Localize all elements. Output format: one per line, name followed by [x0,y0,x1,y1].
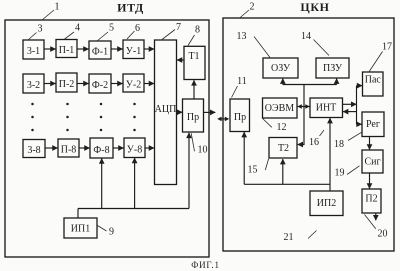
wire power to Пр left [188,133,190,209]
svg-text:ИТД: ИТД [117,1,144,15]
block У-1 [123,40,144,59]
leader 3 [28,33,37,41]
leader 4 [64,32,74,40]
wire П-2 to Ф-2 [77,83,89,85]
wire У-8 to АЦП [145,147,154,149]
wire ИНТ to right bus [343,103,357,105]
svg-text:АЦП: АЦП [155,104,177,115]
wire У-2 to АЦП [144,83,154,85]
wire power to Пр right [243,132,245,184]
svg-text:15: 15 [248,165,258,176]
svg-text:19: 19 [335,168,345,179]
block П-1 [56,40,77,58]
wire bus to Пас [357,85,363,87]
svg-text:4: 4 [75,23,80,34]
svg-text:3-8: 3-8 [27,145,40,156]
wire Сиг to П2 [369,173,371,189]
wire П2 output [375,213,377,220]
block Ф-8 [90,138,113,158]
svg-text:13: 13 [237,31,247,42]
svg-text:16: 16 [309,137,319,148]
svg-text:3: 3 [38,24,43,35]
wire Рег to Сиг [369,137,371,150]
svg-text:ИП1: ИП1 [71,224,90,235]
svg-text:Ф-2: Ф-2 [92,80,108,91]
wire 3-2 to П-2 [44,83,56,85]
wire Ф-2 to У-2 [111,83,123,85]
dots column 3 [31,103,34,132]
svg-text:ФИГ.1: ФИГ.1 [191,260,220,270]
wire ИП1 up to power rail [77,209,79,219]
block Ф-1 [89,41,111,59]
leader 19 [347,166,360,175]
wire bus to ОЗУ [282,79,284,85]
block ИП1 9 [64,218,97,238]
block 3-8 [23,140,45,158]
svg-text:Т2: Т2 [278,143,289,154]
block Пр 11 (right) [230,99,250,132]
svg-text:2: 2 [250,2,255,13]
wire П-1 to Ф-1 [77,48,89,50]
leader 18 [348,132,362,141]
block У-8 [124,138,145,158]
leader 14 [314,40,330,56]
leader 6 [127,31,135,39]
wire Т1 to АЦП [177,59,184,61]
block ЦКН outer box 2 [223,18,394,251]
block Т2 15 [269,138,297,159]
svg-text:Пас: Пас [365,75,382,86]
block Ф-2 [89,74,111,93]
wire П-8 to Ф-8 [79,147,90,149]
svg-text:Т1: Т1 [188,51,199,62]
wire Пр to Т1 [193,80,195,99]
svg-text:14: 14 [301,31,311,42]
leader 12 [263,119,272,128]
svg-text:Рег: Рег [366,119,380,130]
wire bus to Рег [357,123,362,125]
svg-text:Ф-1: Ф-1 [92,47,108,58]
block Пр 10 (left) [183,99,204,132]
wire АЦП to Пр [177,111,183,113]
svg-text:П-8: П-8 [61,145,77,156]
svg-text:Пр: Пр [187,112,199,123]
svg-text:У-8: У-8 [127,145,142,156]
svg-text:18: 18 [334,139,344,150]
leader 5 [97,32,108,41]
svg-text:20: 20 [378,229,388,240]
svg-text:Пр: Пр [234,112,246,123]
leader 20 [365,215,376,229]
svg-text:10: 10 [198,145,208,156]
svg-text:12: 12 [277,122,287,133]
svg-text:17: 17 [382,42,392,53]
wire power rail ИП2 [244,183,330,185]
wire right bus vertical [356,86,358,125]
block Рег 18 [362,112,384,137]
block Пас 17 [363,72,384,96]
leader 17 [369,52,382,72]
leader 9 [98,226,107,232]
block ОЭВМ 12 [263,98,298,118]
wire Пр left to interface [204,111,216,113]
svg-text:9: 9 [109,227,114,238]
wire power to Т2 [282,159,284,184]
svg-text:21: 21 [284,232,294,243]
wire У-1 to АЦП [144,48,154,50]
svg-text:ЦКН: ЦКН [300,0,329,14]
block Т1 8 [184,46,205,79]
wire right bus to ИНТ [343,111,356,113]
leader 2 [239,10,249,19]
block П-2 [56,73,77,92]
dots column У [133,103,136,132]
svg-text:6: 6 [135,23,140,34]
wire Ф-8 to У-8 [113,147,124,149]
leader 11 [232,86,238,98]
wire 3-1 to П-1 [44,48,56,50]
svg-text:У-1: У-1 [126,46,141,57]
block АЦП 7 [155,40,177,185]
dots column Ф [100,103,103,132]
block ИП2 21 [310,191,343,216]
block ИНТ 16 [310,98,343,118]
wire Ф-1 to У-1 [111,48,123,50]
svg-text:8: 8 [195,25,200,36]
wire ИП2 to ИНТ [329,118,331,191]
svg-text:ИП2: ИП2 [317,198,336,209]
leader 10 [191,133,194,151]
svg-text:П-2: П-2 [59,79,75,90]
svg-text:3-1: 3-1 [27,46,40,57]
svg-text:Сиг: Сиг [364,157,380,168]
leader 1 [42,10,54,20]
block У-2 [123,74,144,92]
leader 16 [320,130,325,136]
wire bus drop to Т2 [298,85,304,145]
svg-text:У-2: У-2 [126,80,141,91]
svg-text:П-1: П-1 [59,45,75,56]
wire power to Ф-8 [101,159,103,209]
leader 21 [308,231,317,239]
svg-text:ОЗУ: ОЗУ [271,63,291,74]
svg-text:7: 7 [176,22,181,33]
wire power rail ИП1 [78,208,189,210]
block ПЗУ 14 [316,58,349,78]
block Сиг 19 [362,150,383,173]
svg-text:ОЭВМ: ОЭВМ [265,103,294,114]
block ИТД outer box 1 [5,20,209,257]
leader 13 [254,37,270,58]
svg-text:11: 11 [237,76,247,87]
svg-text:ИНТ: ИНТ [316,103,337,114]
svg-text:П2: П2 [365,194,377,205]
wire bus to ПЗУ [336,79,338,85]
svg-text:ПЗУ: ПЗУ [323,63,343,74]
block 3-1 [23,40,44,59]
leader 15 [265,159,268,170]
wire interface to Пр right bidirectional [220,118,227,120]
svg-text:5: 5 [109,23,114,34]
block П-8 [58,139,79,157]
leader 7 [162,30,175,40]
svg-text:Ф-8: Ф-8 [93,145,109,156]
dots column П [66,103,69,132]
wire 3-8 to П-8 [45,147,58,149]
wire power to У-8 [134,158,136,209]
wire ОЭВМ-ИНТ bidirectional [298,106,310,108]
svg-text:1: 1 [55,2,60,13]
block 3-2 [23,74,44,93]
leader 8 [188,35,195,46]
block ОЗУ 13 [263,58,298,78]
block П2 20 [362,189,381,213]
svg-text:3-2: 3-2 [27,80,40,91]
wire bus ОЗУ-ПЗУ [283,84,337,86]
